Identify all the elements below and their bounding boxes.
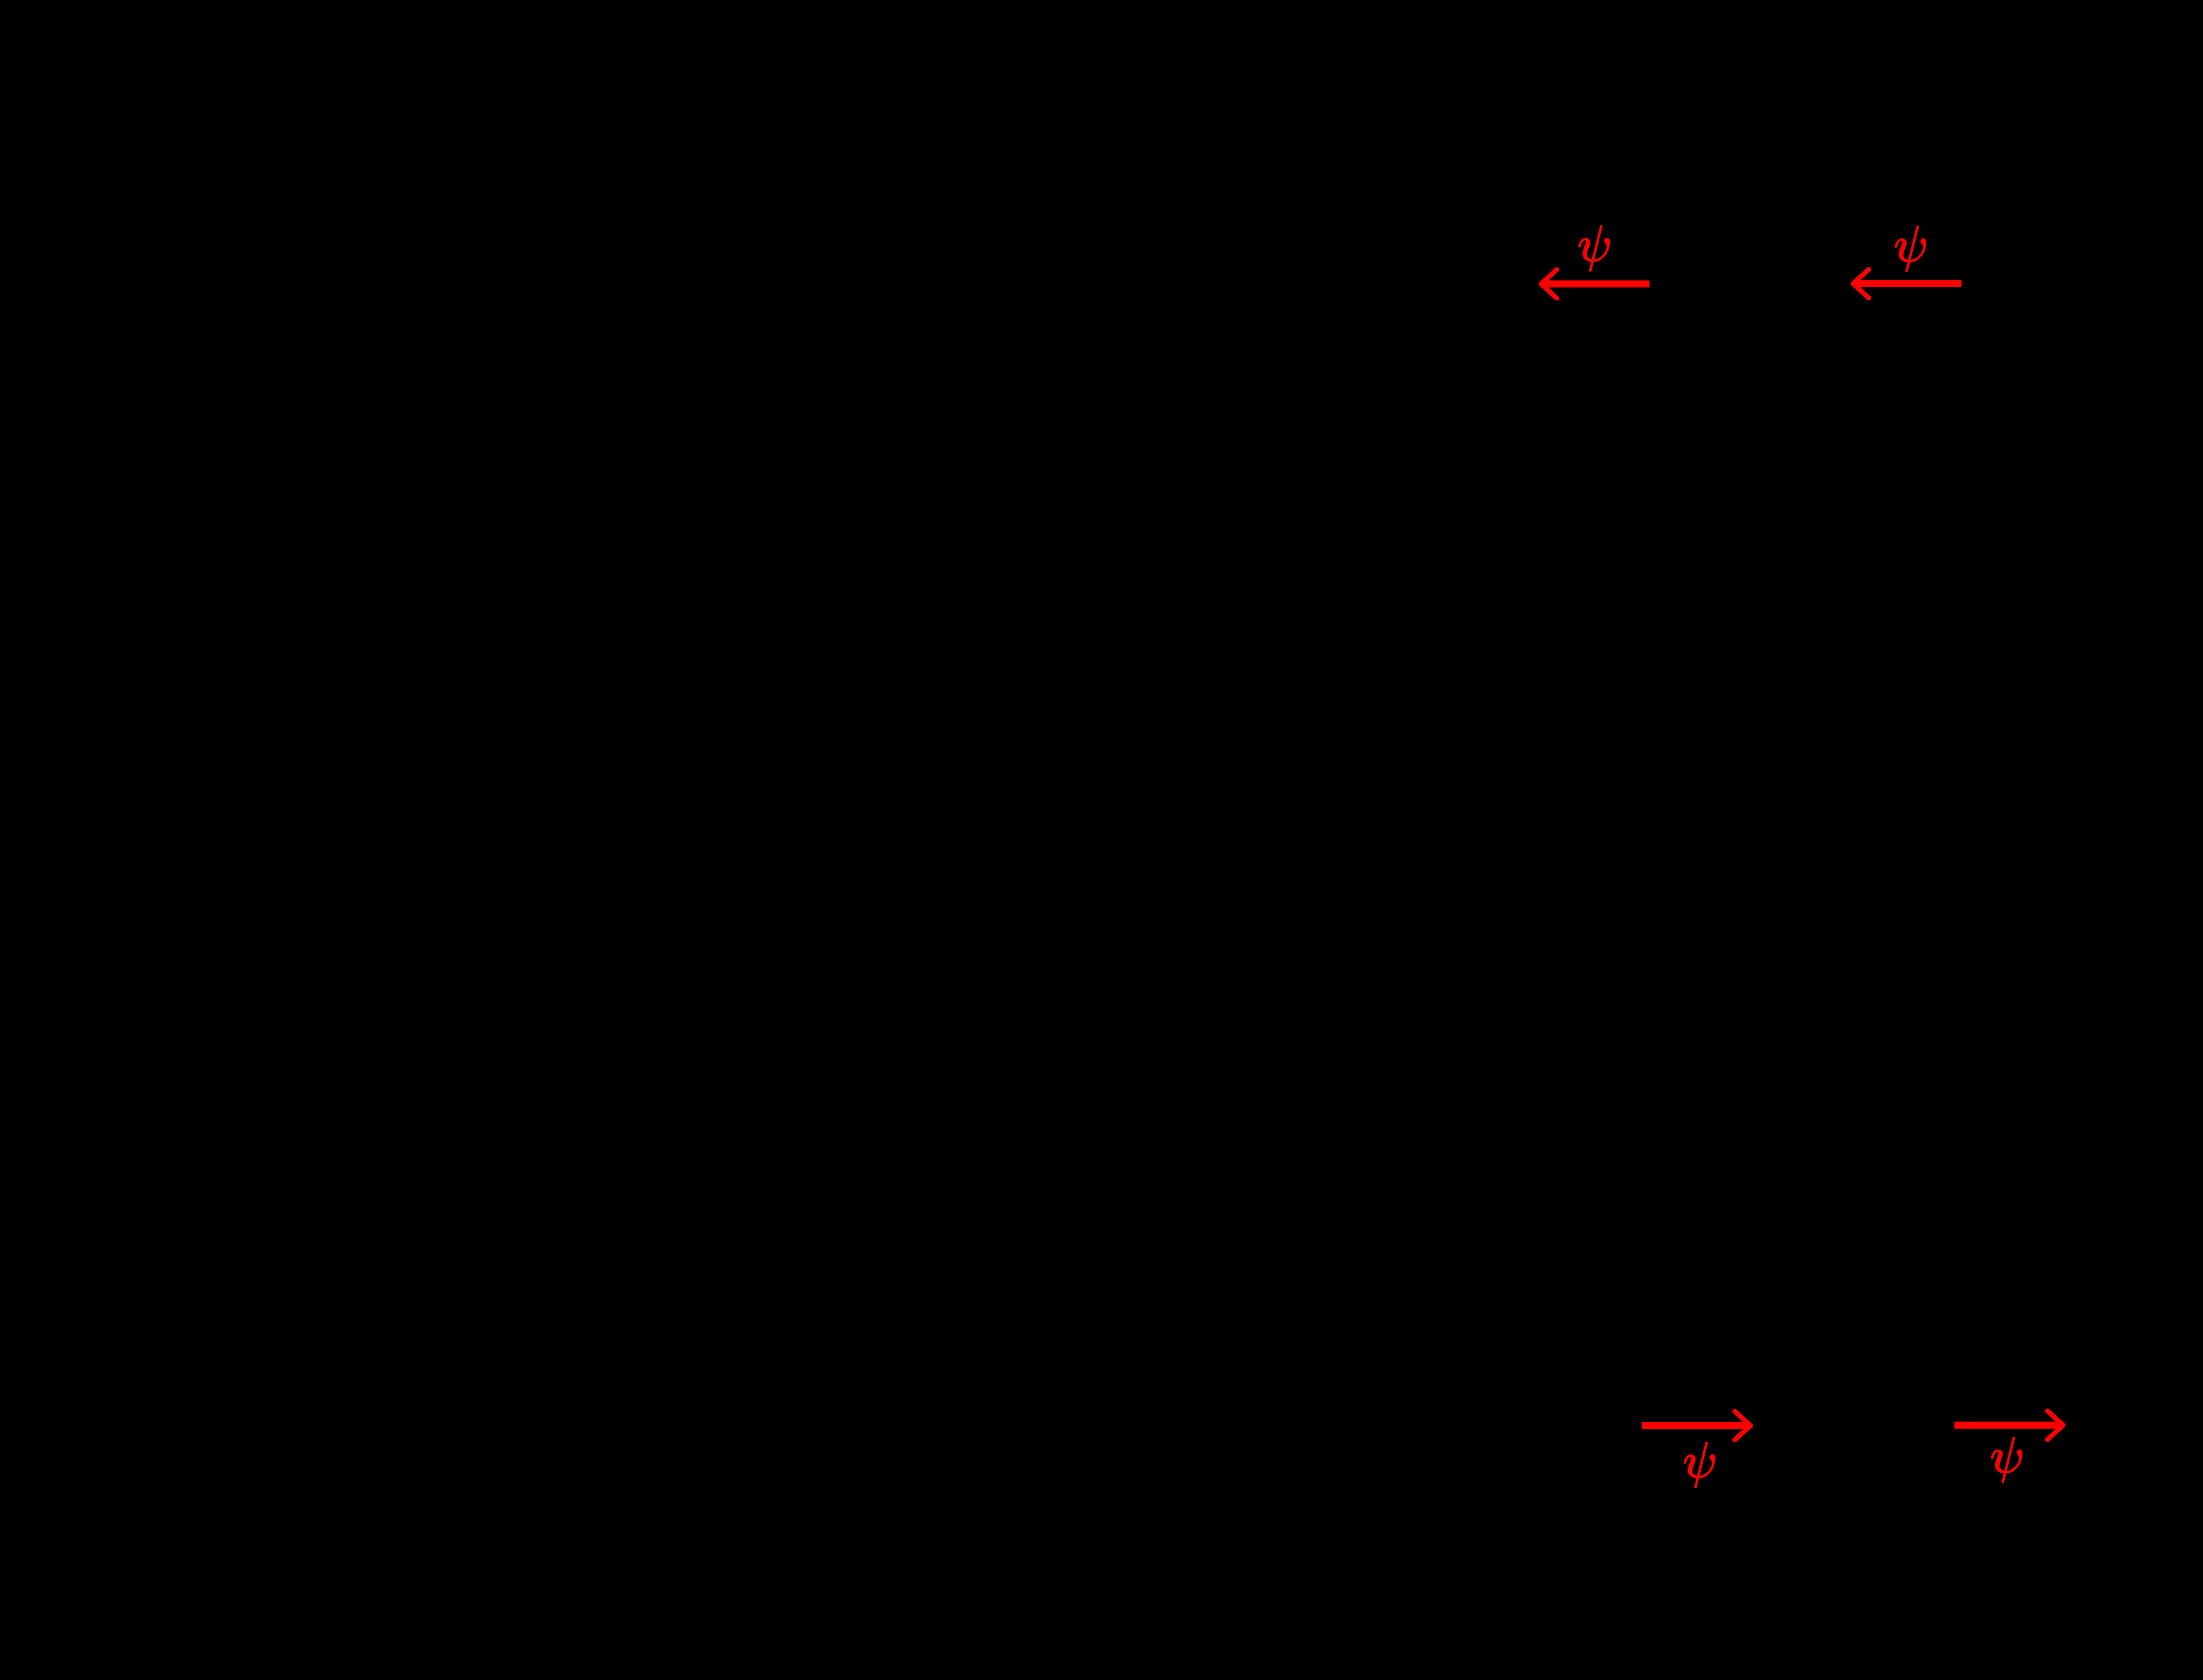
psi label 2 (above arrow 2): [1895, 226, 1926, 272]
arrow 1: top-left red velocity arrow pointing left: [1541, 270, 1650, 298]
psi label 4 (below arrow 4): [1992, 1437, 2022, 1483]
psi label 1 (above arrow 1): [1579, 226, 1610, 271]
psi label 3 (below arrow 3): [1684, 1442, 1715, 1488]
arrow 2: top-right red velocity arrow pointing left: [1853, 270, 1962, 298]
arrow 3: bottom-left red velocity arrow pointing right: [1642, 1411, 1751, 1440]
arrow 4: bottom-right red velocity arrow pointing right: [1955, 1411, 2063, 1439]
